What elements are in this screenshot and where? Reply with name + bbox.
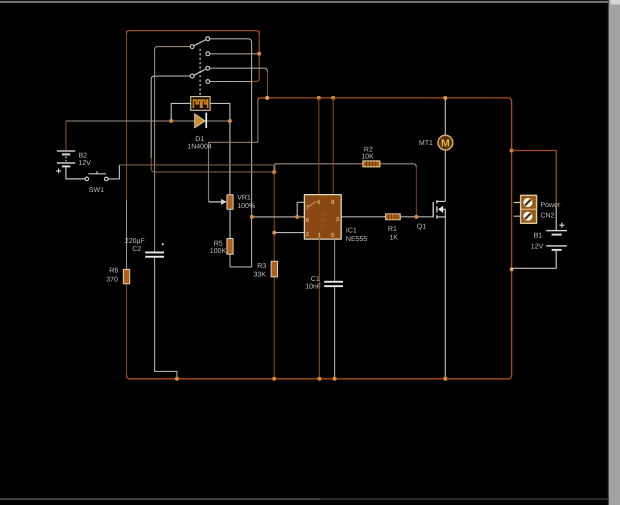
resistor R6 (123, 269, 129, 283)
wire VR1 wiper up and over to Vcc rail left end (209, 98, 267, 202)
mosfet Q1 (433, 200, 445, 218)
svg-text:MT1: MT1 (419, 140, 433, 147)
wire SW1 to trigger node (108, 165, 119, 179)
potentiometer VR1 (209, 195, 234, 209)
resistor R1 (386, 214, 401, 220)
wire C1 to ground rail (334, 287, 336, 379)
svg-text:10K: 10K (361, 154, 374, 161)
wire motor top to rail (444, 98, 446, 135)
wire C2 bottom to rail jog (155, 258, 177, 379)
node ground C1 (333, 377, 337, 381)
svg-text:Q1: Q1 (417, 224, 426, 231)
svg-text:C1: C1 (311, 276, 320, 283)
wire pin 5 to C1 (334, 239, 336, 281)
svg-text:VR1: VR1 (237, 195, 251, 202)
wire pin 7 jog (297, 202, 304, 217)
wire trigger node up to R2 line and to gate node (275, 164, 417, 171)
node ground C2 (175, 377, 179, 381)
wire source to ground rail (444, 217, 446, 379)
IC U1 NE555 (304, 195, 341, 240)
svg-text:M: M (441, 138, 450, 150)
switch SW1 (85, 171, 108, 180)
relay contact throw 3 (206, 66, 210, 70)
wire motor to drain (444, 149, 446, 202)
scrollbar right (609, 0, 620, 505)
node rail-pin4 junction (317, 96, 321, 100)
svg-text:370: 370 (106, 277, 118, 284)
svg-text:5: 5 (321, 224, 324, 230)
svg-text:12V: 12V (531, 243, 544, 250)
svg-text:SW1: SW1 (89, 187, 104, 194)
wire coil-right node down to VR1 top (229, 121, 231, 195)
node pin2 junction (272, 231, 276, 235)
svg-text:100K: 100K (210, 248, 227, 255)
node ground source (443, 377, 447, 381)
wire B1 branch top (512, 151, 557, 208)
wire throw1 to long white vertical (210, 39, 252, 217)
wire left main vertical (relay NO net to R6) (126, 31, 128, 200)
ground rail bottom (127, 375, 512, 379)
node rail-pin8 junction (331, 96, 335, 100)
node ground R3 (272, 377, 276, 381)
relay actuator dashed link (199, 49, 201, 96)
motor MT1 (438, 135, 453, 150)
node ground pin1 (317, 377, 321, 381)
wire pin 8 to rail (332, 98, 334, 195)
node pin7 branch junction (295, 215, 299, 219)
svg-text:CN2: CN2 (541, 212, 555, 219)
relay contact pole 2 (190, 69, 206, 78)
resistor R5 (227, 239, 233, 255)
svg-text:R5: R5 (214, 240, 223, 247)
svg-text:R1: R1 (388, 226, 397, 233)
wire pole1 to left (155, 47, 191, 252)
svg-text:10nF: 10nF (305, 284, 321, 291)
wire long white vertical to R5 U-turn (230, 217, 252, 267)
labels (79, 136, 562, 291)
svg-text:1K: 1K (389, 235, 398, 242)
diode D1 1N4004 (195, 113, 207, 129)
wire pin 3 to R1 and gate (341, 216, 433, 218)
connector CN2 (521, 195, 537, 223)
relay contact throw 1 (206, 37, 210, 41)
node B1 bottom junction (510, 267, 514, 271)
node gate junction (414, 215, 418, 219)
svg-text:IC1: IC1 (346, 227, 357, 234)
svg-text:B2: B2 (79, 152, 88, 159)
relay coil K1 (191, 97, 210, 111)
node coil left junction (169, 119, 173, 123)
wire R6 bottom to ground rail (126, 284, 128, 376)
svg-text:NE555: NE555 (346, 236, 368, 243)
wire pin 2 stub (274, 232, 304, 234)
svg-text:1N4004: 1N4004 (187, 144, 212, 151)
wire trigger node down through R3 to ground rail (273, 172, 275, 379)
svg-text:Power: Power (541, 202, 562, 209)
wire right orange vertical from rail to throw4 (252, 31, 259, 82)
svg-text:R2: R2 (364, 147, 373, 154)
wire coil left terminal (171, 103, 191, 121)
battery B2 (56, 121, 85, 179)
svg-text:R3: R3 (257, 263, 266, 270)
wire B2 plus to D1 row (66, 120, 230, 122)
window top border (0, 0, 609, 1)
node trigger junction (272, 170, 276, 174)
capacitor C2 (145, 243, 164, 257)
node rail-VR1 junction (265, 96, 269, 100)
wire VR1 to R5 series link (229, 209, 231, 238)
wire pole2 to left and down to trigger line (151, 76, 190, 158)
wire CN2 pin stubs (514, 203, 521, 217)
relay contact throw 2 (206, 52, 210, 56)
svg-text:33K: 33K (254, 272, 267, 279)
wire coil right terminal (210, 103, 230, 121)
svg-text:12V: 12V (79, 160, 92, 167)
wire pin 4 to rail (318, 98, 320, 195)
main Vcc rail (259, 98, 512, 376)
wire pin 1 to ground rail (318, 239, 320, 379)
wire throw3 right and down to Vcc rail (210, 68, 268, 72)
resistor R3 (271, 261, 277, 277)
capacitor C1 (324, 281, 343, 287)
node throw2 junction (257, 52, 261, 56)
svg-text:100%: 100% (237, 203, 255, 210)
wire throw2 to junction (210, 53, 259, 55)
wire top orange rail (127, 31, 260, 34)
battery B1 (512, 223, 567, 270)
svg-text:B1: B1 (534, 232, 543, 239)
svg-text:C2: C2 (132, 246, 141, 253)
relay contact throw 4 (206, 80, 210, 84)
resistor R2 (363, 161, 380, 167)
svg-text:R6: R6 (109, 267, 118, 274)
svg-text:220µF: 220µF (125, 238, 145, 245)
window bottom border (0, 498, 320, 500)
node coil right junction (228, 119, 232, 123)
node B1 top junction (510, 149, 514, 153)
node rail-motor junction (443, 96, 447, 100)
wire pins 6-7 line (252, 216, 305, 218)
relay contact pole 1 (190, 40, 206, 49)
node pin6 branch junction (250, 215, 254, 219)
svg-text:D1: D1 (195, 136, 204, 143)
